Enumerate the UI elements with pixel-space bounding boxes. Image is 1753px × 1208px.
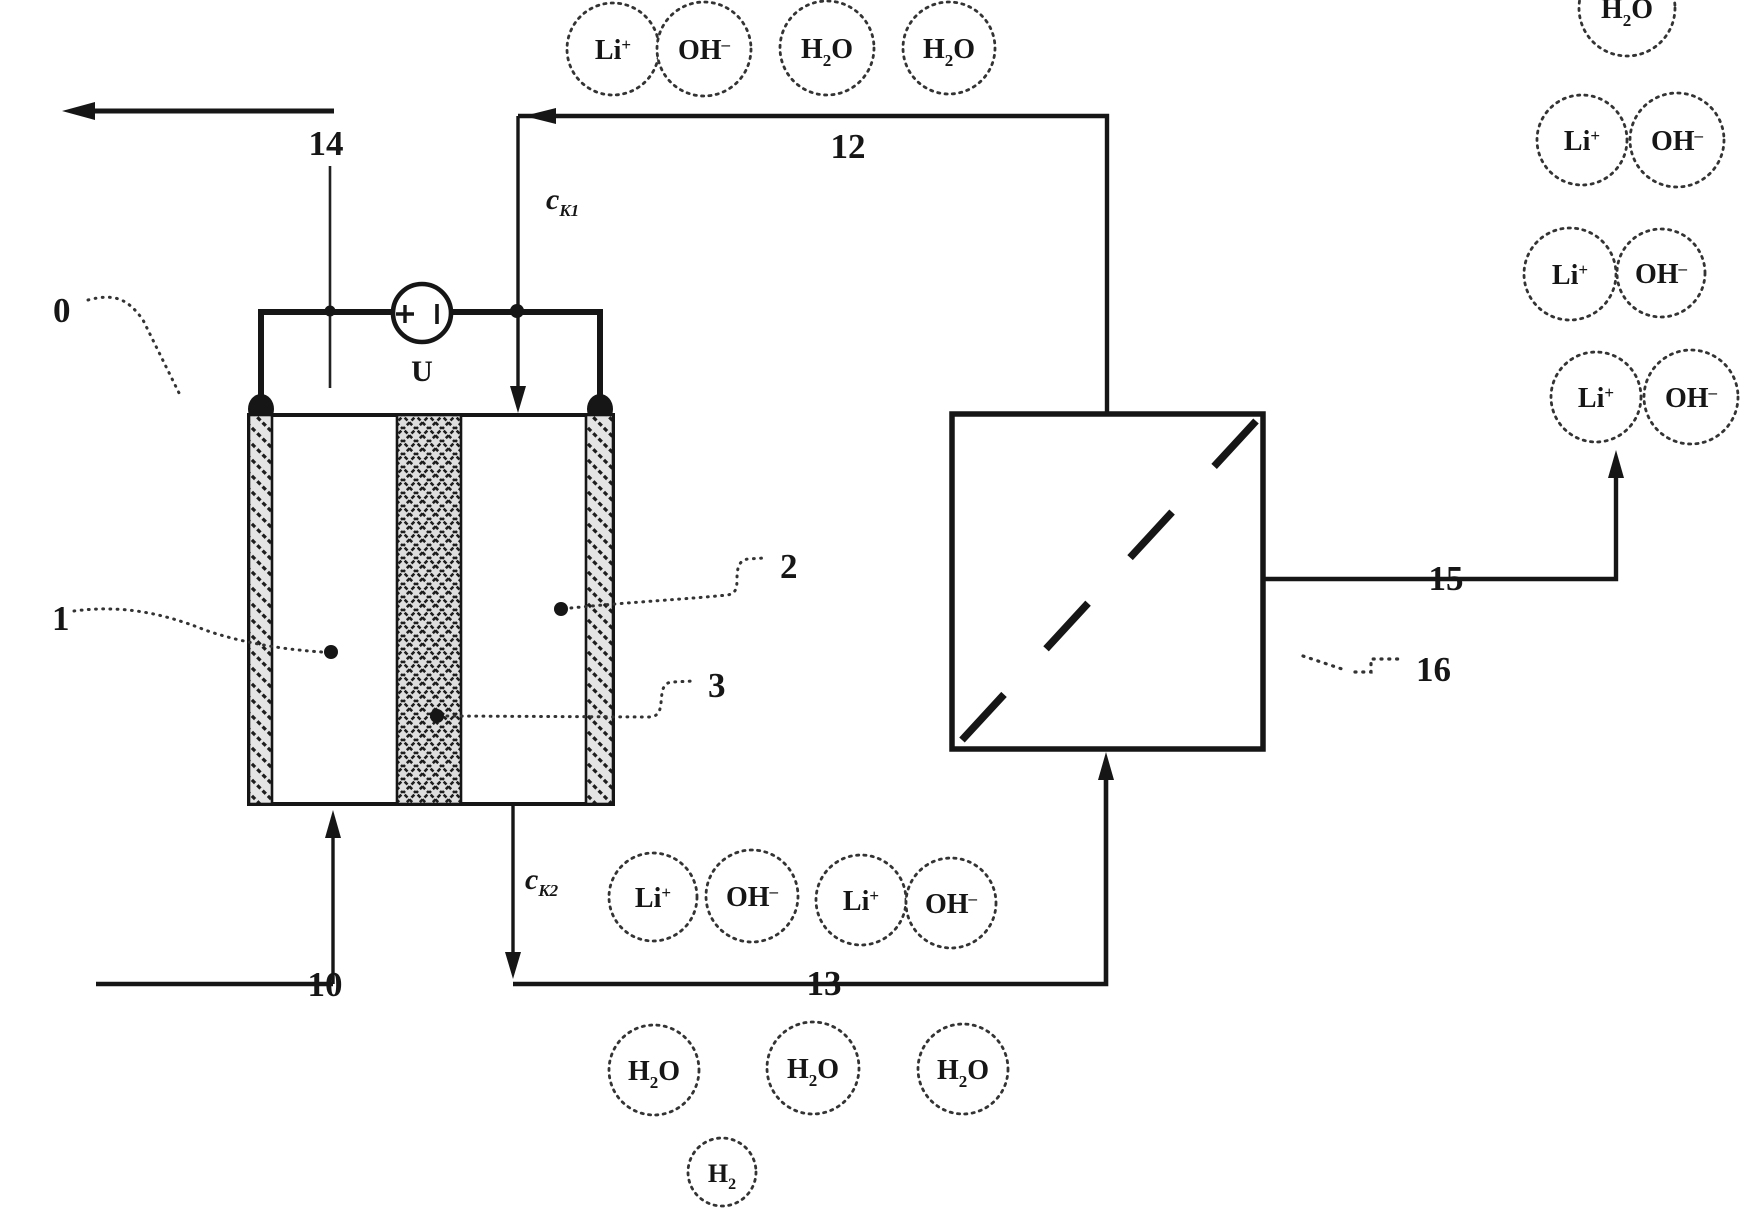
ion circle OH- top row bbox=[657, 2, 751, 96]
svg-text:12: 12 bbox=[831, 127, 866, 166]
molecule circle H2O top right corner bbox=[1579, 0, 1675, 56]
drain pipe cK2 bbox=[505, 805, 521, 979]
leader 1 bbox=[74, 609, 322, 652]
leader 3 bbox=[447, 681, 694, 717]
pipe from cell to line 14 bbox=[329, 166, 332, 388]
ion circle OH- bottom row1 bbox=[706, 850, 798, 942]
line 13 bbox=[513, 766, 1106, 984]
ion circle OH- bottom row1b bbox=[906, 858, 996, 948]
terminal left electrode bbox=[248, 394, 274, 424]
svg-text:15: 15 bbox=[1429, 559, 1464, 598]
electrode 1 (left, hatched) bbox=[249, 415, 272, 804]
feed arrow into cell bottom bbox=[325, 810, 341, 984]
feed line 10 bbox=[96, 982, 333, 987]
svg-text:13: 13 bbox=[807, 964, 842, 1003]
svg-text:2: 2 bbox=[780, 547, 798, 586]
pipe arrow into cell top bbox=[510, 116, 526, 413]
ion circle Li+ right col row3 bbox=[1551, 352, 1641, 442]
ion circle OH- right col row2 bbox=[1617, 229, 1705, 317]
molecule circle H2O bottom row c bbox=[918, 1024, 1008, 1114]
wire top loop 12 bbox=[518, 108, 1107, 414]
wire electrical bus bbox=[261, 312, 600, 400]
svg-text:10: 10 bbox=[308, 965, 343, 1004]
separator vessel 16 bbox=[952, 414, 1263, 749]
svg-text:3: 3 bbox=[708, 666, 726, 705]
svg-text:1: 1 bbox=[52, 599, 70, 638]
molecule circle H2 bottom bbox=[688, 1138, 756, 1206]
leader 16 bbox=[1303, 656, 1398, 672]
ion circle Li+ top row bbox=[567, 3, 659, 95]
electrolysis cell body bbox=[249, 415, 613, 804]
molecule circle H2O top row bbox=[780, 1, 874, 95]
node dot 1 bbox=[324, 645, 338, 659]
node dot 2 bbox=[554, 602, 568, 616]
ion circle Li+ bottom row1 bbox=[609, 853, 697, 941]
ion circle Li+ right col row2 bbox=[1524, 228, 1616, 320]
molecule circle H2O bottom row bbox=[609, 1025, 699, 1115]
arrow into separator bottom bbox=[1098, 752, 1114, 780]
leader 2 bbox=[571, 558, 764, 608]
svg-text:0: 0 bbox=[53, 291, 71, 330]
svg-text:16: 16 bbox=[1416, 650, 1451, 689]
product line 15 bbox=[1263, 465, 1616, 579]
node junction left bbox=[325, 306, 336, 317]
molecule circle H2O bottom row b bbox=[767, 1022, 859, 1114]
node junction right bbox=[510, 304, 524, 318]
electrode 2 (right, hatched) bbox=[586, 415, 613, 804]
voltage source U bbox=[393, 284, 451, 342]
ion circle Li+ bottom row1b bbox=[816, 855, 906, 945]
ion circle Li+ right col row1 bbox=[1537, 95, 1627, 185]
terminal right electrode bbox=[587, 394, 613, 424]
node dot 3 bbox=[430, 709, 444, 723]
ion circle OH- right col row1 bbox=[1630, 93, 1724, 187]
ion circle OH- right col row3 bbox=[1644, 350, 1738, 444]
arrow up to product ions bbox=[1608, 450, 1624, 478]
molecule circle H2O top row 2 bbox=[903, 2, 995, 94]
svg-text:U: U bbox=[411, 355, 433, 388]
leader 0 bbox=[88, 297, 181, 397]
membrane 3 (cross-hatched) bbox=[397, 415, 461, 804]
svg-text:14: 14 bbox=[309, 124, 344, 163]
wire 14 outlet arrow bbox=[62, 102, 334, 120]
